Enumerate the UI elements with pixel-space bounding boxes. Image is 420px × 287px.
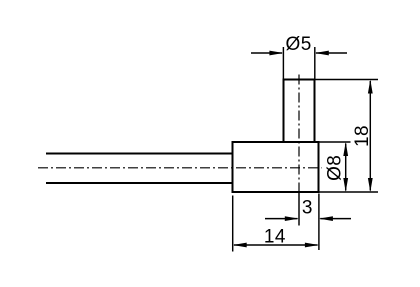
svg-text:Ø5: Ø5 — [286, 34, 312, 55]
svg-text:14: 14 — [264, 226, 286, 247]
svg-text:3: 3 — [302, 198, 313, 219]
svg-text:18: 18 — [352, 125, 373, 147]
svg-text:Ø8: Ø8 — [324, 155, 345, 181]
